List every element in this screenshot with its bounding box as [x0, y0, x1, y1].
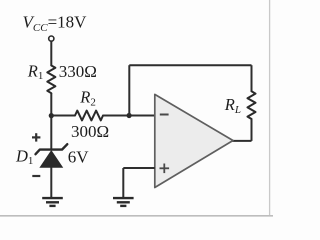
resistor R1 (vertical zigzag) — [47, 66, 55, 94]
wire R1 to node A — [50, 93, 52, 116]
output wire to op-amp apex — [232, 140, 252, 142]
svg-text:VCC=18V: VCC=18V — [23, 13, 88, 35]
wire top right down to RL — [251, 65, 253, 91]
wire non-inverting input — [123, 167, 155, 169]
op-amp non-inverting input plus sign — [160, 167, 170, 169]
ground 1 — [42, 197, 63, 199]
svg-text:RL: RL — [224, 95, 241, 116]
feedback wire up — [128, 65, 130, 115]
node A junction dot — [49, 113, 54, 118]
wire node A to zener D1 — [50, 116, 52, 150]
wire terminal to R1 — [50, 41, 52, 65]
svg-text:R1: R1 — [27, 61, 44, 82]
wire RL to output corner — [251, 119, 253, 141]
svg-text:6V: 6V — [68, 148, 90, 167]
zener D1 cathode bar with bent ends — [36, 144, 68, 154]
svg-text:300Ω: 300Ω — [71, 122, 109, 141]
plus polarity mark — [32, 136, 40, 138]
op-amp inverting input minus sign — [160, 114, 169, 116]
svg-text:R2: R2 — [79, 88, 96, 109]
op-amp U1 triangle — [155, 94, 233, 187]
wire down to ground 2 — [122, 168, 124, 197]
wire R2 to inverting input — [103, 115, 155, 117]
terminal (open circle) — [49, 36, 54, 41]
minus polarity mark — [32, 175, 40, 177]
ground 2 — [113, 197, 134, 199]
wire node A to R2 — [51, 115, 75, 117]
node B junction dot — [127, 113, 132, 118]
page border bottom grey line — [0, 215, 273, 217]
resistor RL (vertical zigzag) — [248, 91, 256, 119]
page border vertical grey line — [269, 0, 271, 216]
resistor R2 (horizontal zigzag) — [75, 111, 103, 121]
svg-text:D1: D1 — [15, 146, 33, 167]
svg-text:330Ω: 330Ω — [59, 62, 97, 81]
wire zener to ground 1 — [50, 167, 52, 197]
zener D1 anode triangle (filled) — [40, 151, 62, 167]
feedback wire top — [129, 64, 251, 66]
